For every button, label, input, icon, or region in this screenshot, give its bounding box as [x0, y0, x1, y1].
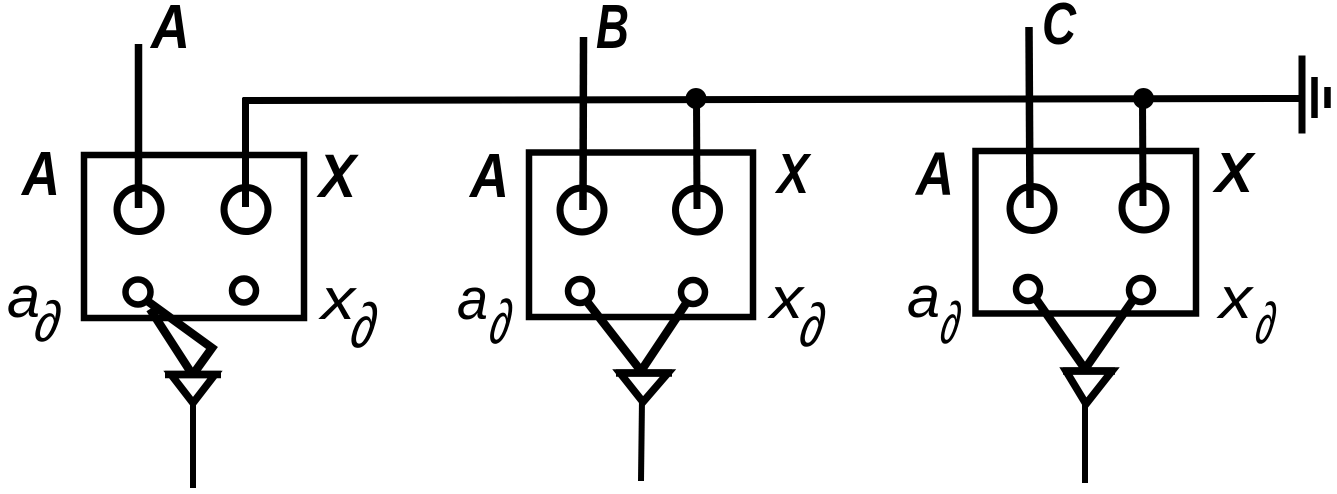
- svg-text:X: X: [316, 142, 359, 210]
- terminal X of T2 (primary, circle): [676, 188, 720, 232]
- svg-text:A: A: [468, 142, 509, 211]
- wire: T1 secondary dogleg from a-d to arrow: [146, 300, 212, 373]
- wire: T1 secondary direct branch from a-d to arrow: [150, 309, 192, 374]
- svg-text:X: X: [774, 142, 811, 206]
- wire: riser from bus junction down to T2 terminal X: [693, 99, 701, 210]
- wire: T3 secondary V right branch: [1085, 300, 1133, 369]
- svg-text:B: B: [596, 0, 629, 62]
- wire: T3 secondary V left branch: [1036, 299, 1085, 369]
- wire: T3 arrow tail: [1082, 401, 1088, 483]
- svg-text:x: x: [767, 266, 806, 331]
- transformer T1 body: [84, 155, 304, 318]
- terminal A of T2 (primary, circle): [560, 188, 604, 232]
- wire: T2 secondary V left branch: [587, 301, 642, 371]
- terminal a-d of T2 (secondary, small circle): [568, 279, 592, 303]
- terminal x-d of T3 (secondary, small circle): [1129, 278, 1153, 302]
- svg-text:x: x: [1216, 266, 1255, 331]
- arrow to secondary burden (T3): bar: [1063, 367, 1115, 375]
- node: junction of bus and T3.X riser: [1133, 88, 1154, 109]
- wire: phase C lead into T3: [1029, 27, 1030, 208]
- arrow to secondary burden (T3): open triangle: [1066, 371, 1112, 404]
- terminal A of T1 (primary, circle): [117, 188, 161, 232]
- terminal A of T3 (primary, circle): [1010, 187, 1054, 231]
- svg-text:a: a: [7, 265, 40, 330]
- terminal X of T1 (primary, circle): [224, 188, 268, 232]
- wire: T2 arrow tail: [641, 399, 642, 481]
- wire: riser from bus junction down to T3 terminal X: [1139, 99, 1147, 207]
- arrow to secondary burden (T1): bar: [165, 371, 221, 379]
- transformer T2 body: [529, 153, 753, 318]
- svg-text:C: C: [1042, 0, 1077, 57]
- terminal x-d of T1 (secondary, small circle): [232, 279, 256, 303]
- svg-text:X: X: [1212, 141, 1256, 205]
- svg-text:A: A: [20, 140, 60, 209]
- wire: phase B lead into T2: [579, 37, 587, 210]
- wire: HV neutral bus from T1.X corner to ground: [243, 99, 1303, 101]
- terminal a-d of T1 (secondary, small circle): [126, 280, 151, 305]
- ground (earth symbol, rotated, right end of bus): [1302, 56, 1328, 134]
- svg-text:A: A: [914, 140, 954, 208]
- transformer T3 body: [976, 151, 1197, 314]
- wire: T1 arrow tail: [190, 400, 196, 488]
- terminal a-d of T3 (secondary, small circle): [1016, 277, 1040, 301]
- arrow to secondary burden (T1): open triangle: [171, 375, 215, 404]
- wire: riser from bus corner down to T1 terminal X: [242, 98, 249, 207]
- svg-text:x: x: [317, 267, 357, 332]
- wire: T2 secondary V right branch: [641, 302, 687, 371]
- svg-text:A: A: [149, 0, 190, 62]
- svg-text:a: a: [457, 267, 488, 332]
- terminal X of T3 (primary, circle): [1122, 186, 1166, 230]
- node: junction of bus and T2.X riser: [686, 88, 707, 109]
- arrow to secondary burden (T2): bar: [616, 369, 672, 377]
- terminal x-d of T2 (secondary, small circle): [681, 280, 705, 304]
- wire: phase A lead into T1: [135, 44, 143, 208]
- svg-text:a: a: [907, 265, 940, 330]
- arrow to secondary burden (T2): open triangle: [620, 373, 668, 402]
